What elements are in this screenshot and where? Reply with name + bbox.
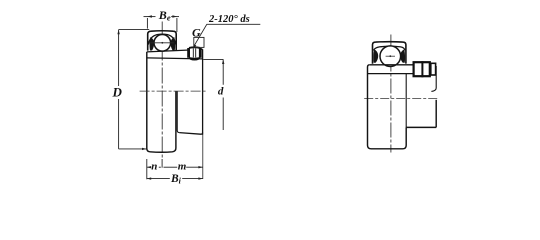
set screw internal hex line right view <box>421 61 423 77</box>
set screw G body <box>189 47 200 60</box>
svg-text:D: D <box>112 84 123 99</box>
svg-text:d: d <box>218 85 224 97</box>
outer ring bottom spherical edge <box>150 91 176 152</box>
collar left boundary line right view <box>405 74 407 128</box>
ball crosshair horizontal <box>150 42 174 44</box>
dimension D top extension line <box>119 29 150 31</box>
collar top edge right of screw <box>199 48 202 50</box>
collar right face below axis right view <box>435 100 437 128</box>
dimension D line <box>118 30 120 86</box>
raceway shoulder wedge left right view <box>373 49 378 62</box>
inner ring top land line <box>147 50 190 52</box>
dimension D bottom extension line <box>119 148 147 150</box>
horizontal axis centerline right view <box>364 97 438 99</box>
outer ring section outline right view <box>373 42 406 64</box>
set screw head recess rectangle <box>194 37 204 47</box>
exposed inner ring silhouette line <box>177 91 179 132</box>
inner ring bore line right view <box>368 73 413 75</box>
dimension d line <box>222 59 224 130</box>
raceway shoulder wedge left <box>150 37 155 51</box>
dimension Be line <box>144 17 180 32</box>
outer ring section outline <box>148 31 177 51</box>
dimension d top extension <box>203 58 223 60</box>
collar bottom silhouette edge <box>179 133 202 135</box>
inner ring bore line <box>147 58 202 59</box>
svg-text:m: m <box>178 161 187 173</box>
ball center dot right view <box>389 55 391 57</box>
inner/outer ring left face line <box>147 52 150 152</box>
arrowhead D bottom <box>142 148 147 150</box>
ball center tick right view <box>386 55 395 57</box>
vertical centerline <box>161 22 163 160</box>
collar right face above axis right view <box>431 66 436 91</box>
collar bottom edge right view <box>406 126 436 128</box>
vertical centerline right view <box>390 35 392 153</box>
leader arrowhead <box>193 44 196 47</box>
dimension Bi line <box>147 178 203 180</box>
horizontal axis centerline <box>140 90 208 92</box>
raceway shoulder wedge right right view <box>400 49 405 62</box>
svg-text:n: n <box>151 161 157 173</box>
ball right view <box>380 46 401 67</box>
inner ring band top edge right view <box>369 64 413 66</box>
set screw G right thread ear <box>199 48 202 58</box>
arrowhead d top <box>222 59 224 64</box>
set screw (pointing right) right view body <box>414 62 430 76</box>
dimension Be arrowheads <box>147 15 177 17</box>
collar right face line <box>202 49 204 135</box>
outer ring raceway inner edge <box>148 34 175 44</box>
raceway shoulder wedge right <box>171 37 176 51</box>
dimension n-m line <box>147 159 203 179</box>
arrowhead D top <box>117 30 119 35</box>
Bi arrowheads <box>147 177 203 179</box>
set screw G left thread ear <box>187 48 190 58</box>
set screw tip block right view <box>431 63 436 75</box>
leader line to set screw <box>195 24 207 45</box>
svg-text:2-120° ds: 2-120° ds <box>208 14 250 25</box>
outer ring raceway inner edge right view <box>373 46 405 50</box>
n-m arrowheads <box>147 166 203 168</box>
leader underline for 2-120 ds <box>207 23 261 25</box>
sleeve left face and bottom right view <box>368 65 407 149</box>
ball <box>154 35 171 52</box>
ball center dot <box>161 42 163 44</box>
right face extension to Bi <box>202 135 204 179</box>
